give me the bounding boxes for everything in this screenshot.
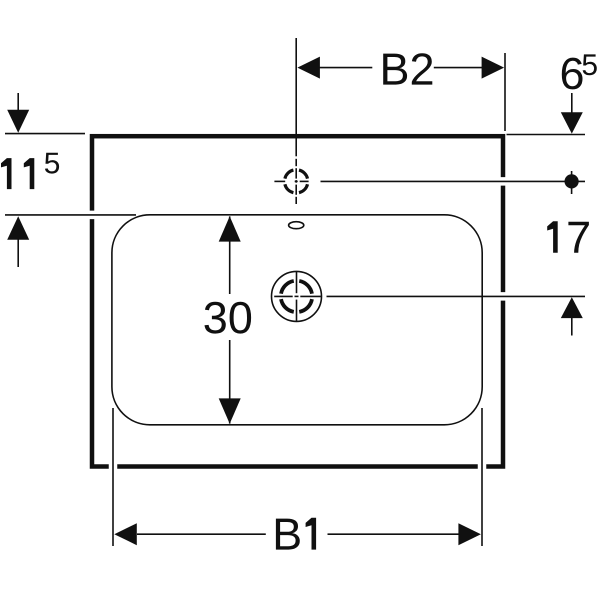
- label 6^5: [562, 58, 583, 90]
- 6.5 dimension top line: [507, 134, 586, 136]
- 6.5 down arrow: [571, 93, 573, 113]
- 17 dimension dot end: [565, 174, 579, 188]
- 11.5 down arrow: [17, 93, 19, 112]
- wire: drain centerline to right (halo): [327, 292, 586, 301]
- B1 dimension line: [137, 533, 266, 535]
- B2 dimension right extension line: [504, 53, 506, 131]
- label 11^5: [1, 158, 12, 189]
- drain centerline horizontal: [274, 295, 321, 297]
- label 17: [547, 221, 558, 253]
- 11.5 up arrow: [7, 216, 29, 240]
- faucet centerline horizontal: [274, 180, 308, 182]
- label B2: [383, 53, 432, 84]
- wire: B1 right extension line (halo): [478, 408, 487, 546]
- B2 dimension line: [318, 67, 372, 69]
- faucet centerline vertical (B2 extension): [295, 38, 297, 204]
- B1 left arrow: [114, 523, 137, 545]
- 11.5 dimension top line: [5, 133, 85, 135]
- wire: B1 left extension line (halo): [109, 408, 118, 546]
- B2 right arrow: [482, 57, 505, 79]
- drain hole inner thick arcs: [281, 281, 312, 312]
- 30 down arrow: [219, 398, 241, 423]
- outer basin rectangle: [92, 136, 503, 466]
- basin bowl rounded rectangle: [112, 215, 482, 425]
- 17 dimension up arrow: [561, 297, 583, 318]
- B1 right arrow: [458, 523, 481, 545]
- overflow hole: [289, 222, 304, 229]
- 30 dimension line: [229, 216, 231, 294]
- faucet hole crosshair circle: [285, 170, 308, 193]
- label B1: [276, 519, 300, 550]
- drain hole outer circle: [272, 271, 322, 321]
- B2 left arrow: [297, 57, 320, 79]
- label 30: [205, 302, 252, 334]
- wire: extension line y=215 crossing left edge (halo): [5, 211, 136, 220]
- wire: faucet centerline to right (halo): [321, 177, 586, 186]
- drain centerline vertical: [296, 272, 298, 321]
- 30 up arrow: [219, 216, 241, 241]
